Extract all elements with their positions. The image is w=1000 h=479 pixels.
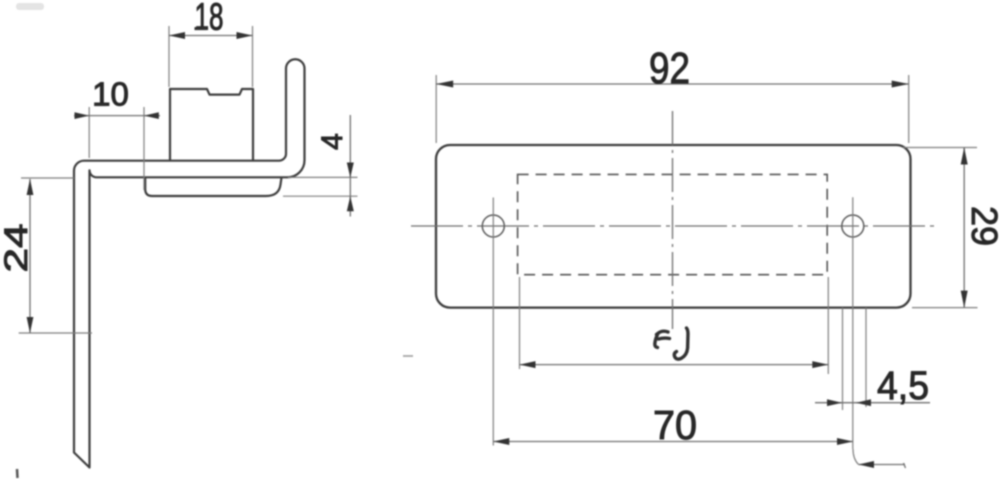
dimension 4 (pad thickness): top extension line — [288, 176, 358, 178]
left view: bottom pad — [145, 178, 281, 197]
right view: dashed inner rectangle — [518, 174, 828, 274]
dimension 10: foot of digit 1 — [95, 103, 107, 106]
dimension 24: top extension line — [21, 177, 74, 179]
dimension 10: left arrow (outside, pointing right) — [75, 112, 90, 119]
dimension 4,5: right arrow (pointing left) — [856, 399, 871, 406]
right view: right hole centerline / extension for 70 — [852, 197, 854, 449]
right view: plate outline — [436, 145, 911, 308]
right view: extension line below plate (right of hole) — [865, 308, 867, 407]
dimension 70: right arrow — [837, 438, 853, 445]
left view: bracket sheet profile — [74, 59, 305, 467]
dimension 24: bottom extension line — [19, 332, 92, 334]
dimension 18: extension lines — [168, 26, 170, 87]
dimension 70: left arrow — [493, 438, 509, 445]
svg-text:4,5: 4,5 — [877, 364, 929, 408]
right view: vertical centerline — [672, 111, 674, 329]
inner dimension: left arrow — [520, 361, 536, 368]
dimension 18: foot of digit 1 — [195, 27, 207, 30]
dimension 92: dimension line — [436, 83, 909, 85]
dimension 4: dimension line — [349, 115, 351, 217]
svg-text:70: 70 — [653, 402, 697, 448]
inner dimension: dimension line — [520, 364, 829, 366]
svg-text:18: 18 — [195, 0, 224, 39]
dimension 4,5: left arrow (pointing right) — [827, 399, 842, 406]
dimension 18: dimension line — [169, 35, 253, 37]
right view: right hole — [842, 215, 864, 237]
dimension 10: dimension line — [74, 115, 160, 117]
svg-text:92: 92 — [649, 44, 690, 93]
dimension 70: dimension line — [493, 441, 853, 443]
dimension 10: right arrow (outside, pointing left) — [144, 112, 159, 119]
dimension 29: top extension line — [903, 147, 977, 149]
stray mark: small dash left of inner dimension — [403, 355, 413, 357]
dimension 4,5: dimension line — [815, 402, 930, 404]
right view: left hole centerline / extension for 70 — [492, 198, 494, 446]
svg-text:10: 10 — [92, 76, 129, 113]
dimension 29: bottom arrow — [961, 291, 968, 308]
svg-text:4: 4 — [316, 133, 349, 150]
dimension 29: bottom extension line — [912, 307, 978, 309]
left view: lamp block with notch — [170, 89, 253, 161]
inner dimension: right extension line — [827, 277, 829, 374]
dimension 92: left arrow — [436, 81, 453, 88]
right view: horizontal centerline — [411, 225, 938, 227]
right view: left hole — [482, 215, 504, 237]
dimension 4: upper arrow (pointing down) — [347, 163, 354, 178]
dimension 24: top arrow — [27, 179, 34, 195]
dimension 92: right extension line — [908, 75, 910, 143]
dimension 24: dimension line — [29, 179, 31, 333]
dimension 92: left extension line — [435, 75, 437, 143]
lower leader line with arrow — [853, 449, 859, 465]
dimension 92: right arrow — [892, 81, 909, 88]
dimension 18: right arrow — [237, 32, 253, 39]
dimension 10: extension lines — [88, 107, 90, 158]
right view: extension line below plate (hole left edge) — [842, 308, 844, 410]
inner dimension: right arrow — [812, 361, 828, 368]
stray mark: bottom-left tick — [16, 469, 19, 478]
stray mark: faint top-left smudge — [16, 3, 44, 10]
inner dimension (handwritten): left extension line — [519, 277, 521, 369]
svg-text:29: 29 — [964, 206, 1000, 246]
dimension 4: bottom extension line — [283, 195, 358, 197]
dimension 29: dimension line — [963, 148, 965, 308]
dimension 29: top arrow — [961, 148, 968, 165]
dimension 4: lower arrow (pointing up) — [347, 196, 354, 211]
inner dimension: handwritten value — [655, 328, 688, 359]
svg-text:24: 24 — [0, 224, 34, 273]
dimension 18: left arrow — [169, 32, 185, 39]
dimension 24: bottom arrow — [27, 317, 34, 333]
